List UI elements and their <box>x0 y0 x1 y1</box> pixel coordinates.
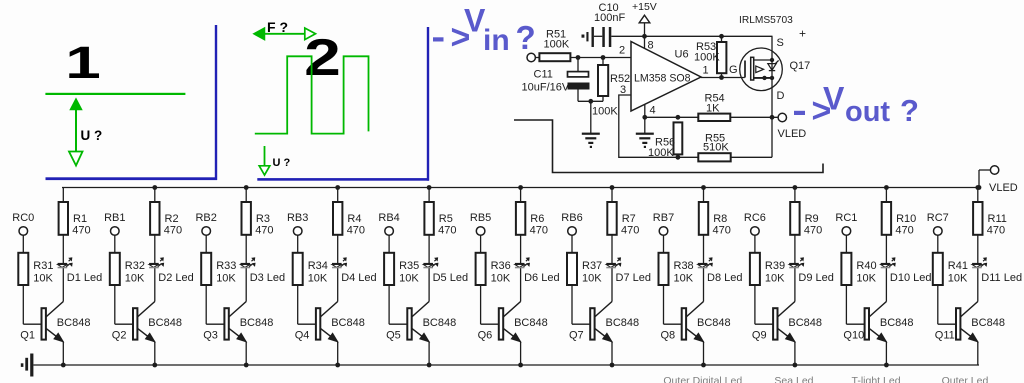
svg-text:R3: R3 <box>256 213 270 225</box>
svg-text:10K: 10K <box>33 273 53 285</box>
svg-text:RB2: RB2 <box>195 212 216 224</box>
svg-text:510K: 510K <box>703 142 729 154</box>
svg-text:RB3: RB3 <box>287 212 308 224</box>
svg-text:D2 Led: D2 Led <box>158 272 193 284</box>
svg-text:10K: 10K <box>856 273 876 285</box>
svg-text:RC7: RC7 <box>927 212 949 224</box>
svg-text:470: 470 <box>347 225 365 237</box>
svg-text:Q3: Q3 <box>203 330 218 342</box>
svg-text:F ?: F ? <box>267 19 288 35</box>
svg-text:R39: R39 <box>765 260 785 272</box>
svg-text:RB1: RB1 <box>104 212 125 224</box>
svg-text:RC6: RC6 <box>744 212 766 224</box>
svg-text:RC1: RC1 <box>835 212 857 224</box>
svg-text:100K: 100K <box>648 147 674 159</box>
svg-text:470: 470 <box>164 225 182 237</box>
svg-text:R2: R2 <box>165 213 179 225</box>
svg-text:10K: 10K <box>674 273 694 285</box>
svg-text:10K: 10K <box>308 273 328 285</box>
svg-text:R8: R8 <box>713 213 727 225</box>
svg-text:470: 470 <box>438 225 456 237</box>
svg-text:470: 470 <box>895 225 913 237</box>
svg-text:in: in <box>483 24 510 57</box>
svg-text:D1 Led: D1 Led <box>67 272 102 284</box>
svg-text:Q7: Q7 <box>569 330 584 342</box>
svg-text:R10: R10 <box>896 213 916 225</box>
svg-text:S: S <box>777 37 784 49</box>
svg-text:BC848: BC848 <box>331 317 365 329</box>
svg-text:D11 Led: D11 Led <box>981 272 1022 284</box>
svg-text:R34: R34 <box>308 260 328 272</box>
svg-text:10uF/16V: 10uF/16V <box>522 82 570 94</box>
svg-text:BC848: BC848 <box>514 317 548 329</box>
svg-text:10K: 10K <box>491 273 511 285</box>
svg-text:BC848: BC848 <box>240 317 274 329</box>
svg-text:Sea Led: Sea Led <box>774 375 813 383</box>
svg-text:?: ? <box>516 19 536 56</box>
svg-text:Q5: Q5 <box>386 330 401 342</box>
svg-text:Q4: Q4 <box>295 330 310 342</box>
svg-text:IRLMS5703: IRLMS5703 <box>739 15 793 26</box>
svg-text:10K: 10K <box>399 273 419 285</box>
svg-text:BC848: BC848 <box>148 317 182 329</box>
svg-text:10K: 10K <box>125 273 145 285</box>
svg-text:1: 1 <box>703 65 709 77</box>
svg-text:Q1: Q1 <box>20 330 35 342</box>
svg-text:BC848: BC848 <box>788 317 822 329</box>
svg-text:R32: R32 <box>125 260 145 272</box>
svg-text:D10 Led: D10 Led <box>890 272 932 284</box>
svg-text:R9: R9 <box>805 213 819 225</box>
svg-text:100K: 100K <box>592 106 618 118</box>
svg-text:BC848: BC848 <box>697 317 731 329</box>
svg-text:BC848: BC848 <box>606 317 640 329</box>
svg-text:R38: R38 <box>674 260 694 272</box>
svg-text:100K: 100K <box>694 52 720 64</box>
svg-text:R7: R7 <box>622 213 636 225</box>
svg-text:R35: R35 <box>399 260 419 272</box>
svg-text:RB5: RB5 <box>470 212 491 224</box>
svg-text:RC0: RC0 <box>12 212 34 224</box>
svg-text:+: + <box>799 27 806 41</box>
svg-text:470: 470 <box>713 225 731 237</box>
svg-text:BC848: BC848 <box>971 317 1005 329</box>
svg-text:VLED: VLED <box>778 128 807 140</box>
svg-text:BC848: BC848 <box>57 317 91 329</box>
svg-text:+15V: +15V <box>632 1 657 13</box>
svg-text:3: 3 <box>620 84 626 96</box>
svg-text:BC848: BC848 <box>423 317 457 329</box>
svg-text:U ?: U ? <box>273 157 291 169</box>
svg-text:R40: R40 <box>856 260 876 272</box>
svg-text:10K: 10K <box>948 273 968 285</box>
svg-text:10K: 10K <box>216 273 236 285</box>
svg-text:D9 Led: D9 Led <box>798 272 833 284</box>
svg-text:U ?: U ? <box>81 128 103 143</box>
svg-text:10K: 10K <box>765 273 785 285</box>
svg-text:Q10: Q10 <box>843 330 864 342</box>
svg-text:D: D <box>777 90 785 102</box>
svg-text:100K: 100K <box>544 39 570 51</box>
svg-text:G: G <box>729 64 738 76</box>
svg-text:100nF: 100nF <box>594 12 625 24</box>
svg-text:RB7: RB7 <box>653 212 674 224</box>
svg-text:R37: R37 <box>582 260 602 272</box>
svg-text:T-light Led: T-light Led <box>852 375 901 383</box>
svg-text:RB6: RB6 <box>561 212 582 224</box>
svg-text:Q2: Q2 <box>112 330 127 342</box>
svg-text:470: 470 <box>72 225 90 237</box>
svg-text:D5 Led: D5 Led <box>433 272 468 284</box>
svg-text:R1: R1 <box>73 213 87 225</box>
svg-text:VLED: VLED <box>989 182 1018 194</box>
svg-text:C11: C11 <box>534 69 553 81</box>
svg-text:D6 Led: D6 Led <box>524 272 559 284</box>
svg-text:R36: R36 <box>491 260 511 272</box>
svg-text:2: 2 <box>619 45 625 57</box>
svg-text:out: out <box>845 96 890 128</box>
svg-text:R6: R6 <box>530 213 544 225</box>
svg-text:Q17: Q17 <box>790 60 811 72</box>
svg-text:470: 470 <box>255 225 273 237</box>
svg-text:LM358 SO8: LM358 SO8 <box>634 73 691 85</box>
svg-text:R31: R31 <box>33 260 53 272</box>
svg-text:R4: R4 <box>347 213 361 225</box>
svg-text:Q11: Q11 <box>935 330 955 342</box>
svg-text:470: 470 <box>530 225 548 237</box>
svg-text:Q6: Q6 <box>478 330 493 342</box>
svg-text:?: ? <box>900 93 919 128</box>
svg-text:470: 470 <box>621 225 639 237</box>
svg-text:R11: R11 <box>988 213 1007 225</box>
svg-text:470: 470 <box>987 225 1005 237</box>
svg-text:470: 470 <box>804 225 822 237</box>
svg-text:U6: U6 <box>675 49 689 61</box>
svg-text:Q9: Q9 <box>752 330 767 342</box>
svg-text:BC848: BC848 <box>880 317 914 329</box>
svg-text:Outer Led: Outer Led <box>942 375 989 383</box>
svg-text:1K: 1K <box>706 103 720 115</box>
svg-text:Outer Digital Led: Outer Digital Led <box>663 375 742 383</box>
svg-text:10K: 10K <box>582 273 602 285</box>
svg-text:Q8: Q8 <box>661 330 676 342</box>
svg-text:V: V <box>823 80 845 116</box>
svg-text:R5: R5 <box>439 213 453 225</box>
svg-text:1: 1 <box>65 37 101 87</box>
svg-text:D7 Led: D7 Led <box>616 272 651 284</box>
svg-text:D4 Led: D4 Led <box>341 272 376 284</box>
svg-text:D3 Led: D3 Led <box>250 272 285 284</box>
svg-text:D8 Led: D8 Led <box>707 272 742 284</box>
svg-text:4: 4 <box>650 105 656 117</box>
svg-text:RB4: RB4 <box>378 212 399 224</box>
svg-text:R33: R33 <box>216 260 236 272</box>
svg-text:8: 8 <box>648 40 654 52</box>
svg-text:R41: R41 <box>948 260 968 272</box>
